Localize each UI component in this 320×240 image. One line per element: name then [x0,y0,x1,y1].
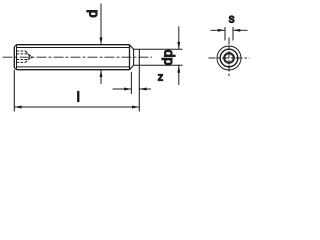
z arrow pointing right [124,88,131,91]
right chamfer cone bottom [130,65,134,70]
s arrow pointing right [218,29,225,32]
svg-text:z: z [158,72,164,84]
dp arrow up [177,65,180,72]
centerline axis [3,56,153,58]
hex socket hidden line inner bottom [17,59,29,61]
thread minor line top [17,47,130,49]
end view body circle [220,49,238,67]
dog point shoulder line [133,49,135,65]
dp dimension line lower [178,65,180,85]
end view outer thread circle [217,46,241,70]
s dimension line left with arrow [211,29,226,31]
svg-text:dp: dp [159,49,175,65]
svg-text:d: d [84,10,100,18]
z dimension line right with arrow [139,88,151,90]
socket cone hidden V inner [28,54,32,60]
hex socket hidden line outer top [17,50,26,52]
socket cone hidden V outer [26,51,31,62]
z arrow pointing left [139,88,146,91]
dimension d arrow up [100,70,103,77]
svg-text:l: l [77,89,80,104]
end view hex socket hexagon [225,53,233,62]
dimension d line upper [100,4,102,45]
s extension line left [224,27,226,41]
left chamfer vertical line [16,45,18,69]
end view horizontal centerline [209,57,250,59]
dog point bottom edge with dp extension line [134,64,183,66]
hex socket hidden line outer bottom [17,61,26,63]
z dimension left extension line [130,72,132,94]
screw body outline (side view) [14,45,129,70]
dimension d line lower [100,70,102,84]
end view vertical centerline [228,38,230,79]
left end chamfer corner bottom [14,68,16,70]
l dimension left extension line (left face extended) [13,70,15,112]
dp dimension line upper [178,26,180,49]
svg-text:s: s [229,14,235,26]
dp arrow down [177,42,180,49]
z dimension line left with arrow [113,88,132,90]
s arrow pointing left [233,29,240,32]
right chamfer cone top [130,45,134,50]
dimension d arrow down [100,37,103,44]
thread minor line bottom [17,66,130,68]
s dimension line right with arrow [233,29,248,31]
dog point end face and l/z right extension line [138,49,140,111]
l dimension line [14,106,139,108]
left end chamfer corner top [14,45,16,47]
end view socket counterbore circle [224,53,235,64]
s extension line right [232,27,234,41]
l dimension arrow left [14,106,21,109]
l dimension arrow right [132,106,139,109]
hex socket hidden line inner top [17,53,29,55]
dog point top edge with dp extension line [134,48,183,50]
